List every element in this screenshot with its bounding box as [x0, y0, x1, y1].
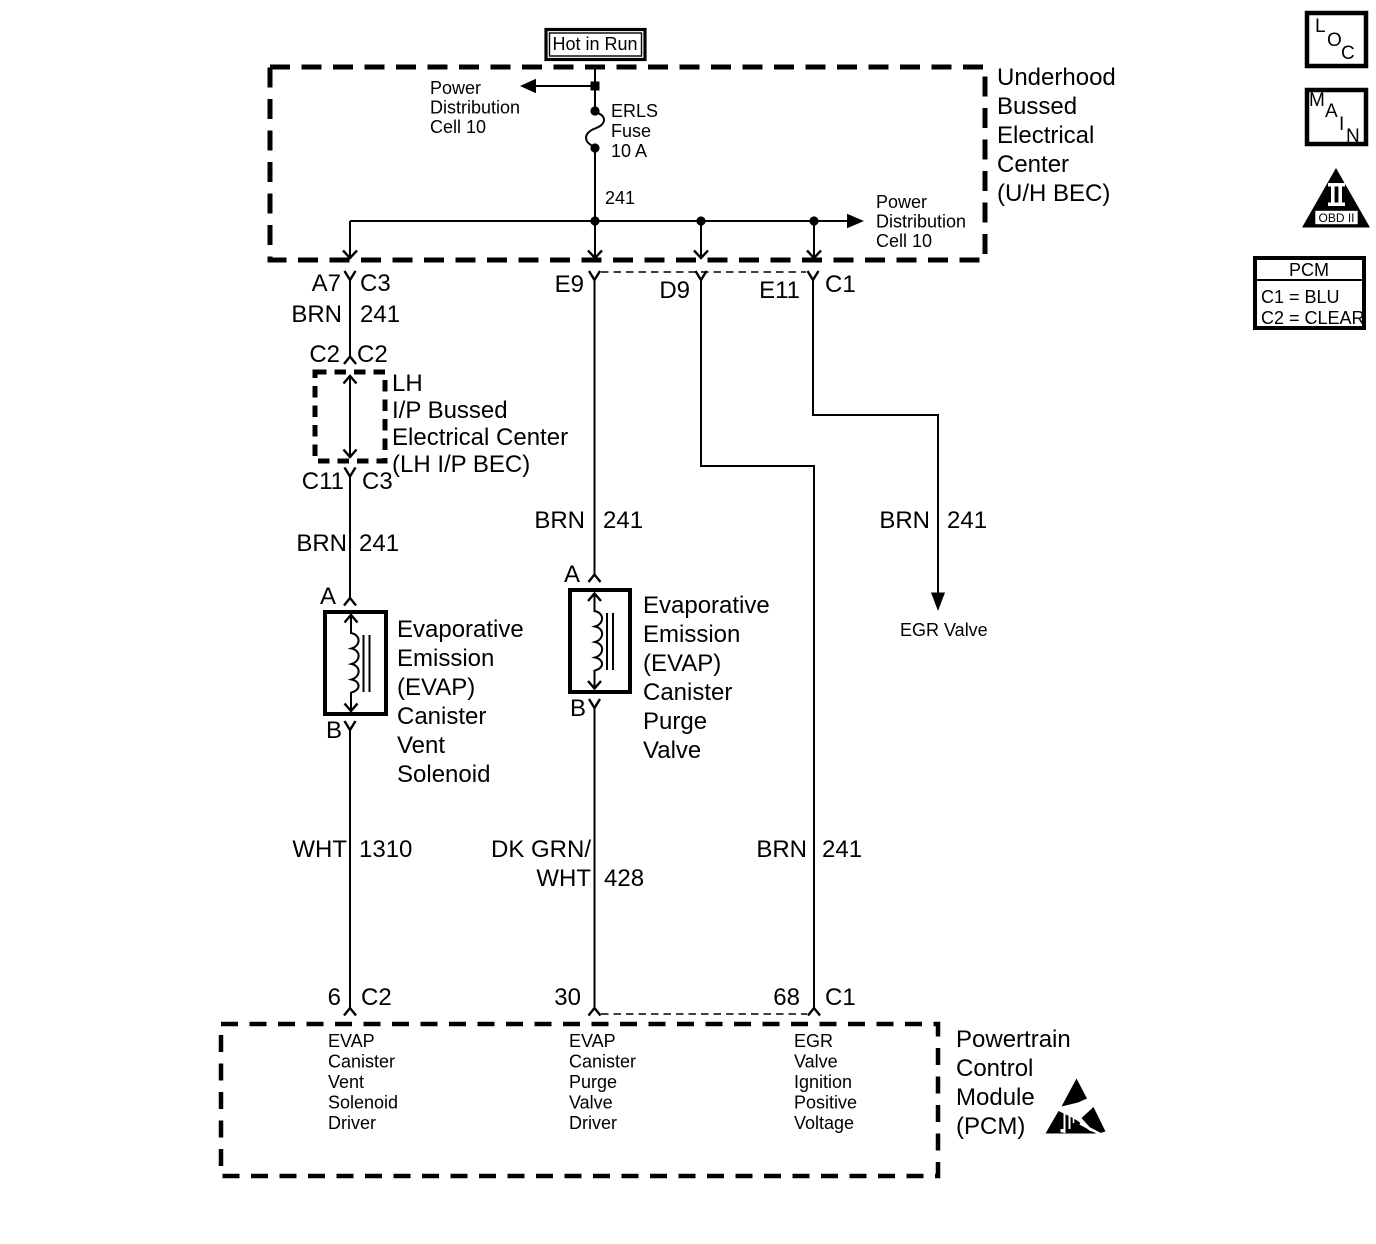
thin dashed connector tie line (C1 connector group, top): [601, 271, 806, 273]
svg-text:241: 241: [947, 507, 987, 534]
wire: D9 drop with jog to PCM pin 68: [701, 280, 814, 1007]
svg-text:Valve: Valve: [569, 1093, 613, 1113]
label: EVAP Canister Purge Valve Driver (PCM internal): [569, 1031, 636, 1133]
junction dot at bus x=595: [590, 216, 599, 225]
svg-text:Canister: Canister: [643, 679, 732, 706]
svg-text:Solenoid: Solenoid: [397, 761, 490, 788]
connector fork C11/C3: [345, 468, 356, 477]
svg-text:Voltage: Voltage: [794, 1113, 854, 1133]
svg-text:Hot in Run: Hot in Run: [552, 34, 637, 54]
svg-text:E11: E11: [759, 277, 800, 304]
label: DK GRN/ WHT / 428: [491, 836, 644, 892]
svg-text:241: 241: [603, 507, 643, 534]
solenoid coil symbol (purge valve): [588, 594, 613, 689]
svg-text:Valve: Valve: [794, 1052, 838, 1072]
wire: E9 down to purge valve pin A: [594, 280, 596, 574]
svg-text:C3: C3: [362, 468, 393, 495]
svg-text:Driver: Driver: [569, 1113, 617, 1133]
svg-text:EVAP: EVAP: [569, 1031, 616, 1051]
svg-text:241: 241: [605, 188, 635, 208]
svg-text:Canister: Canister: [328, 1052, 395, 1072]
svg-text:EGR Valve: EGR Valve: [900, 620, 988, 640]
svg-text:(LH I/P BEC): (LH I/P BEC): [392, 451, 530, 478]
svg-text:Distribution: Distribution: [430, 98, 520, 118]
label: 6 / C2: [328, 984, 392, 1011]
junction node (solid square) on feed wire: [591, 82, 600, 91]
label: A7 / C3: [312, 270, 391, 297]
wire: A7/C3 down to C2 connector: [349, 280, 351, 356]
svg-text:ERLS: ERLS: [611, 101, 658, 121]
wire: DK GRN/WHT 428 purge valve to PCM pin 30: [594, 707, 596, 1007]
svg-text:68: 68: [773, 984, 800, 1011]
thin dashed connector tie line (C1 connector group, bottom): [601, 1013, 807, 1015]
solenoid coil symbol (vent solenoid): [345, 615, 370, 711]
wire: WHT 1310 vent solenoid to PCM pin 6: [349, 729, 351, 1007]
svg-text:C2 = CLEAR: C2 = CLEAR: [1261, 308, 1365, 328]
svg-text:O: O: [1327, 30, 1342, 51]
svg-text:(EVAP): (EVAP): [397, 674, 475, 701]
label: BRN / 241 (A7 drop): [291, 301, 400, 328]
arrow: to EGR Valve: [931, 593, 945, 612]
wire: E11 jog to EGR valve feed: [813, 280, 938, 594]
pin chevron PCM 68/C1: [808, 1008, 820, 1016]
svg-text:Driver: Driver: [328, 1113, 376, 1133]
wire: pass-through arrow inside LH I/P BEC: [344, 376, 357, 457]
Powertrain Control Module (PCM) dashed box: [221, 1024, 938, 1176]
svg-text:Vent: Vent: [328, 1072, 364, 1092]
svg-text:(EVAP): (EVAP): [643, 650, 721, 677]
svg-text:LH: LH: [392, 370, 423, 397]
label: LH I/P Bussed Electrical Center (LH I/P BEC): [392, 370, 568, 478]
svg-text:Emission: Emission: [397, 645, 494, 672]
svg-text:6: 6: [328, 984, 341, 1011]
svg-text:BRN: BRN: [879, 507, 930, 534]
svg-text:Cell 10: Cell 10: [430, 117, 486, 137]
wire: fuse output down to bus: [594, 148, 596, 221]
label: Powertrain Control Module (PCM): [956, 1026, 1071, 1140]
label: BRN / 241 (vent solenoid feed): [296, 530, 399, 557]
pin fork B (purge valve): [589, 699, 600, 708]
label: BRN / 241 (EGR valve feed): [879, 507, 987, 534]
svg-text:EVAP: EVAP: [328, 1031, 375, 1051]
label: EVAP Canister Vent Solenoid Driver (PCM internal): [328, 1031, 398, 1133]
svg-text:C2: C2: [361, 984, 392, 1011]
label: Underhood Bussed Electrical Center (U/H BEC): [997, 64, 1116, 207]
label: BRN / 241 (EGR ignition feed to PCM): [756, 836, 862, 863]
svg-text:A7: A7: [312, 270, 341, 297]
connector fork D9: [696, 271, 707, 280]
wire: bus drop to E11 with open arrowhead: [807, 221, 821, 258]
svg-text:428: 428: [604, 865, 644, 892]
svg-text:C2: C2: [309, 341, 340, 368]
svg-text:B: B: [570, 695, 586, 722]
svg-text:B: B: [326, 717, 342, 744]
svg-text:BRN: BRN: [296, 530, 347, 557]
label: WHT / 1310: [292, 836, 412, 863]
wire: from Hot in Run down to ERLS fuse: [594, 65, 596, 109]
Underhood Bussed Electrical Center (U/H BEC) dashed box: [270, 67, 985, 260]
svg-text:PCM: PCM: [1289, 260, 1329, 280]
connector fork E9: [589, 271, 600, 280]
label: C11 / C3: [302, 468, 393, 495]
pin chevron A (vent solenoid): [344, 598, 356, 606]
wire: bus drop to A7 with open arrowhead: [343, 221, 357, 258]
svg-text:Powertrain: Powertrain: [956, 1026, 1071, 1053]
svg-text:Cell 10: Cell 10: [876, 231, 932, 251]
svg-text:Electrical Center: Electrical Center: [392, 424, 568, 451]
svg-text:Positive: Positive: [794, 1093, 857, 1113]
junction dot at bus x=701: [696, 216, 705, 225]
label: E11 / C1: [759, 271, 856, 304]
svg-text:L: L: [1315, 16, 1326, 37]
label: Power Distribution Cell 10 (left): [430, 78, 520, 137]
svg-text:Power: Power: [430, 78, 481, 98]
svg-text:Underhood: Underhood: [997, 64, 1116, 91]
svg-text:241: 241: [822, 836, 862, 863]
LH I/P Bussed Electrical Center dashed box: [315, 372, 385, 461]
MAIN reference box: [1307, 90, 1366, 147]
svg-text:Center: Center: [997, 151, 1069, 178]
svg-text:C3: C3: [360, 270, 391, 297]
svg-text:C: C: [1341, 43, 1355, 64]
svg-text:C1: C1: [825, 984, 856, 1011]
wire: branch arrow to Power Distribution Cell 10 (left): [520, 79, 592, 93]
svg-text:Purge: Purge: [643, 708, 707, 735]
svg-text:A: A: [320, 583, 336, 610]
connector fork E11/C1: [808, 271, 819, 280]
svg-text:Bussed: Bussed: [997, 93, 1077, 120]
OBD II symbol (triangle badge): [1302, 168, 1370, 228]
svg-text:10 A: 10 A: [611, 141, 647, 161]
EVAP canister vent solenoid box: [325, 612, 386, 714]
pin chevron PCM 30: [589, 1008, 601, 1016]
svg-text:Purge: Purge: [569, 1072, 617, 1092]
svg-text:BRN: BRN: [291, 301, 342, 328]
label: Evaporative Emission (EVAP) Canister Purge Valve: [643, 592, 770, 764]
svg-text:N: N: [1346, 126, 1360, 147]
svg-text:Canister: Canister: [569, 1052, 636, 1072]
svg-text:Evaporative: Evaporative: [643, 592, 770, 619]
svg-text:30: 30: [554, 984, 581, 1011]
label: Power Distribution Cell 10 (right): [876, 192, 966, 251]
Hot in Run feed box: [546, 30, 645, 60]
svg-text:Canister: Canister: [397, 703, 486, 730]
wire: C11/C3 down to vent solenoid pin A: [349, 476, 351, 597]
junction dot at bus x=814: [809, 216, 818, 225]
svg-text:Evaporative: Evaporative: [397, 616, 524, 643]
svg-text:C11: C11: [302, 468, 344, 495]
label: 68 / C1: [773, 984, 855, 1011]
svg-text:E9: E9: [555, 271, 584, 298]
svg-text:1310: 1310: [359, 836, 412, 863]
svg-text:WHT: WHT: [536, 865, 591, 892]
svg-text:241: 241: [360, 301, 400, 328]
svg-text:(PCM): (PCM): [956, 1113, 1025, 1140]
svg-text:OBD II: OBD II: [1318, 211, 1354, 225]
svg-text:C1 = BLU: C1 = BLU: [1261, 287, 1340, 307]
svg-text:Fuse: Fuse: [611, 121, 651, 141]
svg-text:Solenoid: Solenoid: [328, 1093, 398, 1113]
svg-text:Ignition: Ignition: [794, 1072, 852, 1092]
svg-text:WHT: WHT: [292, 836, 347, 863]
PCM connector legend box: [1255, 258, 1365, 328]
EVAP canister purge valve box: [570, 590, 630, 692]
svg-text:Emission: Emission: [643, 621, 740, 648]
wire: 241 distribution bus (horizontal) with right arrow: [350, 214, 864, 228]
svg-text:M: M: [1309, 90, 1325, 111]
pin chevron PCM 6/C2: [344, 1008, 356, 1016]
label: ERLS Fuse 10 A: [611, 101, 658, 161]
svg-text:A: A: [564, 561, 580, 588]
label: C2 / C2: [309, 341, 387, 368]
svg-text:I/P Bussed: I/P Bussed: [392, 397, 508, 424]
label: Evaporative Emission (EVAP) Canister Vent Solenoid: [397, 616, 524, 788]
label: EGR Valve Ignition Positive Voltage (PCM internal): [794, 1031, 857, 1133]
svg-text:C2: C2: [357, 341, 388, 368]
pin chevron A (purge valve): [589, 575, 601, 583]
svg-text:Vent: Vent: [397, 732, 445, 759]
LOC reference box: [1307, 13, 1366, 66]
svg-text:Distribution: Distribution: [876, 212, 966, 232]
svg-text:(U/H BEC): (U/H BEC): [997, 180, 1110, 207]
svg-text:A: A: [1325, 101, 1338, 122]
ESD sensitive device symbol: [1046, 1079, 1106, 1136]
svg-text:Control: Control: [956, 1055, 1033, 1082]
svg-text:EGR: EGR: [794, 1031, 833, 1051]
svg-text:Electrical: Electrical: [997, 122, 1094, 149]
svg-text:Valve: Valve: [643, 737, 701, 764]
pin fork B (vent solenoid): [345, 721, 356, 730]
svg-text:BRN: BRN: [534, 507, 585, 534]
svg-text:BRN: BRN: [756, 836, 807, 863]
svg-text:DK GRN/: DK GRN/: [491, 836, 591, 863]
wire: bus drop to D9 with open arrowhead: [694, 221, 708, 258]
svg-text:C1: C1: [825, 271, 856, 298]
connector chevron C2/C2: [344, 357, 356, 365]
svg-text:Power: Power: [876, 192, 927, 212]
fuse ERLS 10A (squiggle element with terminal dots): [586, 106, 604, 152]
svg-text:Module: Module: [956, 1084, 1035, 1111]
connector fork A7/C3: [345, 271, 356, 280]
label: BRN / 241 (purge valve feed): [534, 507, 643, 534]
svg-text:I: I: [1339, 114, 1344, 135]
svg-text:D9: D9: [659, 277, 690, 304]
svg-text:241: 241: [359, 530, 399, 557]
wire: bus drop to E9 with open arrowhead: [588, 221, 602, 258]
